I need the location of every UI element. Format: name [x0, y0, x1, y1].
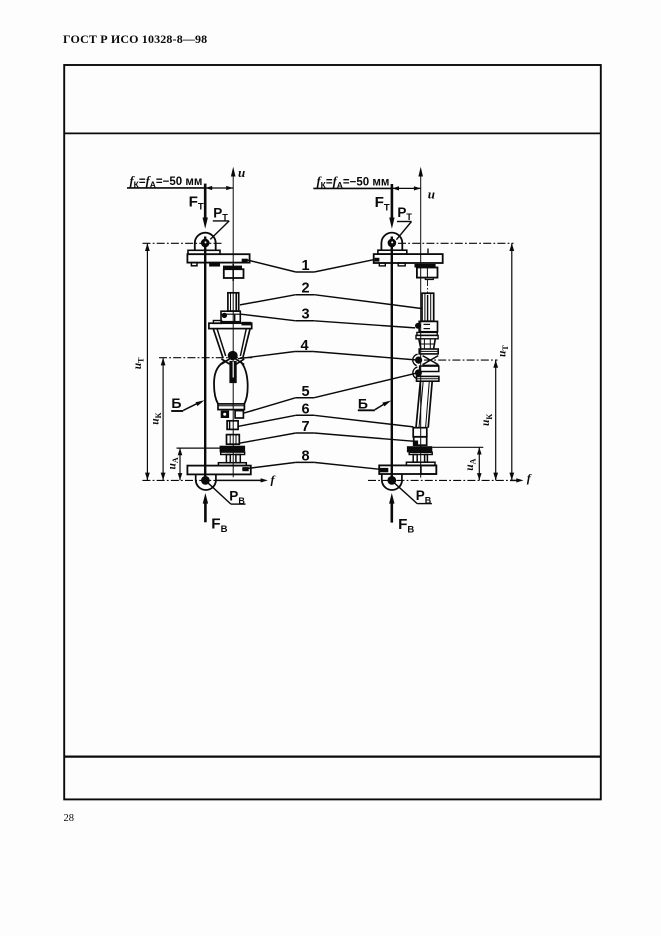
clamp squares left [221, 411, 229, 418]
B label left [171, 395, 181, 411]
label fK=fA=-50mm left [130, 174, 203, 190]
top plate left [187, 254, 249, 262]
svg-text:u: u [428, 187, 435, 202]
shackle base right [378, 250, 407, 254]
foot flange black left [220, 446, 246, 452]
leader 1 right [314, 260, 374, 272]
dimension arrows fK right [392, 187, 421, 189]
ankle clamp right [413, 428, 427, 437]
FT label left [189, 193, 204, 212]
uT label left [132, 357, 146, 369]
vase bottom block left [218, 404, 244, 410]
plate feet left [191, 263, 197, 266]
base plate right [379, 465, 436, 474]
PB leader left [208, 483, 231, 504]
knee ball right [415, 357, 422, 364]
B label right [358, 395, 368, 411]
ankle adapter left [227, 435, 240, 445]
PT leader right [397, 221, 412, 223]
pyramid plate left [209, 323, 252, 328]
item number 1 [301, 258, 309, 274]
foot flange white left [221, 452, 245, 454]
svg-text:3: 3 [301, 306, 309, 322]
u axis right [420, 170, 422, 478]
calf vase left [214, 361, 226, 404]
base strip right [406, 462, 435, 465]
shin tube right [416, 381, 420, 428]
ankle block right [420, 366, 439, 371]
f label right [527, 471, 532, 485]
knee centerline right [424, 359, 498, 361]
shackle base left [188, 250, 220, 254]
clamp strip right [415, 264, 436, 268]
base centerline / f axis left [142, 479, 216, 481]
leader 2 left [240, 295, 296, 305]
item number 6 [301, 401, 309, 417]
FB arrow left [204, 502, 207, 522]
FT force arrow left [204, 184, 207, 219]
FT force arrow right [391, 184, 394, 219]
uK label left [150, 412, 164, 424]
top plate mark right [375, 258, 380, 262]
item number 4 [300, 338, 308, 354]
uT label right [497, 345, 511, 357]
item number 8 [301, 449, 309, 465]
flange stack right [417, 332, 437, 335]
leader 1 left [246, 260, 296, 272]
knee hourglass right [419, 339, 421, 349]
pivot centerline top left [143, 242, 223, 244]
uK dimension line left [162, 358, 164, 481]
ankle tick line right [432, 446, 483, 448]
ankle ball right [415, 369, 422, 376]
FB label right [398, 516, 414, 535]
adapter clamp body left [224, 269, 244, 278]
svg-text:2: 2 [301, 280, 309, 296]
PB label left [229, 489, 245, 506]
leader 3 left [241, 314, 296, 321]
knee flange right [419, 349, 438, 354]
foot legs right [413, 455, 417, 463]
uK label right [480, 414, 494, 426]
cone left [213, 329, 223, 358]
PT leader left [213, 220, 229, 222]
item number 7 [301, 419, 309, 435]
svg-text:28: 28 [64, 813, 75, 824]
ankle tick line left [177, 447, 221, 449]
svg-text:u: u [238, 165, 245, 180]
svg-text:Б: Б [171, 395, 181, 411]
FB arrow right [390, 502, 393, 523]
knee wedges left [221, 359, 229, 364]
u axis label right [428, 187, 435, 202]
top plate right [374, 254, 443, 263]
top rule [64, 132, 601, 134]
clamp stub right [425, 278, 433, 280]
knee ball left [228, 351, 238, 360]
uA label left [167, 457, 181, 469]
PT label left [213, 205, 228, 222]
tube clamp right [419, 321, 437, 331]
tube left [228, 293, 239, 311]
leader 7 right [314, 433, 413, 441]
dimension underline right [313, 187, 392, 189]
base plate left [187, 466, 250, 475]
leader 6 left [239, 415, 296, 426]
item number 2 [301, 280, 309, 296]
leader 5 left [244, 398, 296, 413]
f label left [271, 472, 276, 486]
top pivot shackle right [381, 233, 402, 251]
uK dimension line right [495, 360, 497, 480]
u axis left [232, 170, 234, 477]
pivot centerline top right [398, 242, 514, 244]
svg-text:Б: Б [358, 395, 368, 411]
foot flange black right [407, 446, 432, 452]
dimension underline left [127, 187, 205, 189]
dimension arrows fK left [205, 187, 233, 189]
stem left [229, 361, 236, 383]
base strip left [218, 463, 246, 466]
uA label right [464, 458, 478, 470]
bottom rule [64, 755, 601, 757]
item number 5 [301, 384, 309, 400]
base plate mark left [242, 467, 248, 471]
leader 6 right [314, 415, 413, 427]
foot flange white right [409, 452, 432, 454]
knee wedges right [423, 356, 439, 365]
leader 7 left [240, 433, 296, 443]
knee centerline left [159, 357, 254, 359]
plate feet right [379, 263, 385, 266]
FB label left [211, 516, 227, 535]
PT label right [397, 205, 412, 222]
component centerline right [426, 280, 428, 293]
leader 8 left [242, 462, 296, 469]
u axis label left [238, 165, 245, 180]
leader 5 right [314, 373, 415, 397]
shin top strip right [417, 376, 439, 381]
foot legs left [226, 455, 230, 463]
ankle adapter right [414, 437, 427, 445]
leader 8 right [314, 462, 379, 469]
plate tick right [427, 249, 429, 254]
leader 2 right [314, 295, 422, 309]
PB leader right [395, 483, 418, 503]
uT dimension line right [511, 243, 513, 480]
clamp body right [417, 268, 438, 278]
leader 4 right [313, 352, 415, 360]
label fK=fA=-50mm right [317, 175, 390, 191]
tube clamp left [221, 311, 240, 322]
top pivot shackle left [195, 233, 216, 251]
uA dimension line left [179, 448, 181, 480]
bottom pivot left [195, 474, 197, 481]
top plate mark left [242, 259, 248, 263]
bottom pivot right [381, 474, 383, 481]
tube right [422, 293, 434, 321]
load line right [391, 237, 393, 481]
outer frame [64, 65, 601, 799]
item number 3 [301, 306, 309, 322]
uA dimension line right [478, 447, 480, 480]
PB label right [416, 488, 432, 505]
svg-text:ГОСТ Р ИСО 10328-8—98: ГОСТ Р ИСО 10328-8—98 [63, 32, 207, 46]
uT dimension line left [146, 243, 148, 480]
leader 3 right [314, 321, 415, 328]
leader 4 left [238, 352, 295, 359]
tube stub left [227, 421, 238, 430]
load line left [204, 237, 206, 481]
FT label right [375, 194, 390, 213]
adapter clamp strip left [223, 266, 242, 270]
base centerline / f axis right [368, 479, 510, 481]
